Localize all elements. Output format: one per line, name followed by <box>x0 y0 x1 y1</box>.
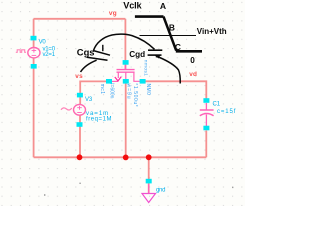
svg-text:freq=1M: freq=1M <box>86 117 112 123</box>
svg-text:vg: vg <box>109 10 117 17</box>
annotation waveform low line <box>176 50 202 53</box>
annotation capacitor Cgd plates <box>148 49 162 51</box>
svg-text:nmos1: nmos1 <box>143 60 149 76</box>
svg-text:A: A <box>160 1 166 11</box>
annotation Cgs bottom lead <box>81 60 97 72</box>
svg-text:vd: vd <box>189 71 197 78</box>
svg-text:l=600n: l=600n <box>109 83 115 98</box>
wire C1 bottom <box>205 131 207 158</box>
pin square MOS source <box>106 79 112 84</box>
ground symbol <box>142 184 156 203</box>
svg-text:V3: V3 <box>85 97 93 103</box>
svg-text:C1: C1 <box>213 102 221 108</box>
wire gnd branch <box>148 157 150 193</box>
pin square MOS bulk <box>123 79 129 84</box>
svg-text:mc1: mc1 <box>99 84 105 95</box>
transistor NM0 (nmos, gate up) <box>112 65 142 81</box>
grid major dots <box>44 194 45 195</box>
annotation arrow vd to Cgd <box>159 57 181 84</box>
node junction dot (bulk / rail) <box>123 155 129 161</box>
annotation threshold line Vin+Vth <box>140 35 197 37</box>
annotation waveform high line <box>135 15 164 18</box>
wire gate drop <box>124 19 126 70</box>
pin square V0 top <box>31 36 37 41</box>
wire bulk drop <box>125 82 127 157</box>
wire drain to vd corner <box>143 81 207 99</box>
wire V0 top vertical <box>33 19 35 48</box>
capacitor C1 <box>200 103 214 128</box>
svg-text:Vclk: Vclk <box>123 1 142 11</box>
wire vg rail (top horizontal) <box>34 18 126 20</box>
svg-text:c=15f: c=15f <box>217 109 236 115</box>
annotation arc gate lead (Cgs top to Cgd top) <box>94 34 155 50</box>
svg-text:V0: V0 <box>39 39 47 45</box>
pin square C1 top <box>203 98 209 103</box>
svg-text:v2=1: v2=1 <box>43 52 56 58</box>
svg-text:Cgs: Cgs <box>77 46 95 57</box>
pin square C1 bottom <box>203 126 209 131</box>
svg-text:*1.500u*: *1.500u* <box>132 83 138 107</box>
pin square gnd <box>146 179 152 184</box>
pin square MOS gate <box>123 60 129 65</box>
svg-text:0: 0 <box>190 56 195 65</box>
svg-text:C: C <box>175 42 181 52</box>
pin square V3 bottom <box>77 122 83 127</box>
voltage source V0 (pulse) <box>16 48 40 58</box>
svg-text:w=9u: w=9u <box>126 84 132 100</box>
pin square V3 top <box>77 93 83 98</box>
wire V0 bottom to ground rail <box>33 58 35 158</box>
node junction dot (gnd / rail) <box>146 154 152 160</box>
annotation waveform falling edge <box>164 17 177 51</box>
svg-text:B: B <box>169 23 175 33</box>
pin square MOS drain <box>140 79 146 84</box>
svg-text:NM0: NM0 <box>145 84 151 96</box>
svg-text:Cgd: Cgd <box>129 50 145 59</box>
node junction dot (V3 / rail) <box>77 154 83 160</box>
svg-text:vs: vs <box>75 73 83 80</box>
wire vs corner to source pin <box>80 81 109 104</box>
wire bottom rail <box>34 156 207 158</box>
svg-text:gnd: gnd <box>156 188 165 194</box>
wire V3 bottom vertical <box>79 115 81 157</box>
pin square V0 bottom <box>31 64 37 69</box>
voltage source V3 (sine) <box>61 104 86 115</box>
annotation capacitor Cgs plates <box>93 51 110 56</box>
svg-text:Vin+Vth: Vin+Vth <box>197 27 227 36</box>
